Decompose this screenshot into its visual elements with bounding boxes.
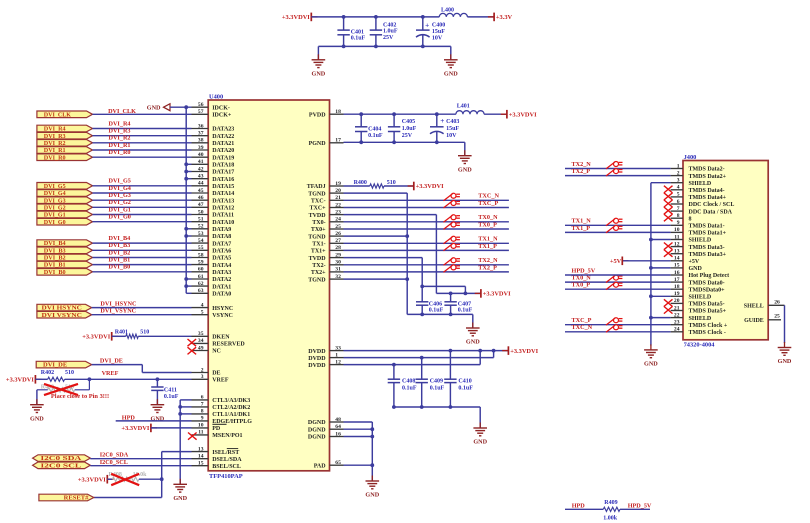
svg-text:10V: 10V (446, 133, 457, 139)
svg-text:TMDS Data1-: TMDS Data1- (689, 224, 725, 230)
svg-text:19: 19 (335, 181, 341, 187)
svg-text:DKEN: DKEN (212, 335, 230, 341)
svg-text:TXC_P: TXC_P (572, 317, 592, 324)
svg-text:DVI_G1: DVI_G1 (109, 206, 131, 213)
svg-text:DGND: DGND (308, 435, 326, 441)
svg-text:TX2_P: TX2_P (478, 264, 497, 271)
svg-text:12: 12 (674, 241, 680, 247)
svg-text:DATA22: DATA22 (212, 134, 234, 140)
svg-text:GND: GND (312, 70, 326, 77)
svg-text:MSEN/PO1: MSEN/PO1 (212, 433, 242, 439)
svg-text:23: 23 (335, 209, 341, 215)
svg-text:DVI_CLK: DVI_CLK (108, 108, 136, 115)
svg-text:DATA17: DATA17 (212, 170, 234, 176)
svg-text:DVI_HSYNC: DVI_HSYNC (100, 300, 136, 307)
svg-text:+3.3VDVI: +3.3VDVI (82, 334, 110, 341)
svg-text:25V: 25V (402, 133, 413, 139)
svg-text:41: 41 (198, 159, 204, 165)
svg-text:14: 14 (198, 454, 204, 460)
svg-text:DATA10: DATA10 (212, 220, 234, 226)
svg-text:C408: C408 (402, 379, 415, 385)
svg-text:HPD_5V: HPD_5V (628, 502, 652, 509)
svg-text:25V: 25V (383, 35, 394, 41)
svg-text:DVI VSYNC: DVI VSYNC (42, 313, 82, 319)
svg-text:28: 28 (335, 245, 341, 251)
svg-text:CTL2/A2/DK2: CTL2/A2/DK2 (212, 405, 250, 411)
svg-text:TGND: TGND (308, 191, 326, 197)
svg-text:26: 26 (335, 231, 341, 237)
svg-text:DATA4: DATA4 (212, 263, 231, 269)
svg-text:DVI_G2: DVI_G2 (109, 199, 131, 206)
svg-text:18: 18 (335, 109, 341, 115)
svg-text:1.00k: 1.00k (603, 516, 618, 522)
svg-text:DVI_R0: DVI_R0 (44, 155, 66, 161)
svg-text:+5V: +5V (610, 258, 622, 265)
svg-text:DATA12: DATA12 (212, 206, 234, 212)
svg-text:+3.3VDVI: +3.3VDVI (282, 14, 310, 21)
svg-text:7: 7 (677, 206, 680, 212)
svg-text:25: 25 (335, 224, 341, 230)
svg-text:42: 42 (198, 166, 204, 172)
svg-text:55: 55 (198, 245, 204, 251)
svg-text:DVI_R4: DVI_R4 (109, 120, 131, 127)
svg-text:1: 1 (677, 163, 680, 169)
svg-text:SHIELD: SHIELD (689, 181, 712, 187)
svg-text:TX1_P: TX1_P (572, 225, 591, 232)
svg-text:I2C0 SDA: I2C0 SDA (41, 456, 83, 462)
svg-text:36: 36 (198, 123, 204, 129)
svg-text:+3.3VDVI: +3.3VDVI (6, 377, 34, 384)
svg-text:TFADJ: TFADJ (307, 184, 326, 190)
svg-text:DVI_G0: DVI_G0 (109, 214, 131, 221)
svg-text:DATA7: DATA7 (212, 241, 231, 247)
svg-text:TX0_N: TX0_N (478, 214, 498, 221)
svg-text:PVDD: PVDD (309, 112, 326, 118)
svg-text:GND: GND (147, 105, 161, 112)
svg-text:57: 57 (198, 109, 204, 115)
svg-text:DVI_G2: DVI_G2 (44, 205, 66, 211)
svg-text:VREF: VREF (212, 378, 229, 384)
svg-text:5: 5 (677, 192, 680, 198)
svg-text:+3.3VDVI: +3.3VDVI (78, 476, 106, 483)
svg-text:TX1_N: TX1_N (572, 218, 592, 225)
svg-text:TMDS Clock -: TMDS Clock - (689, 330, 726, 336)
svg-text:RESERVED: RESERVED (212, 342, 245, 348)
svg-text:GND: GND (473, 439, 487, 446)
svg-text:DATA6: DATA6 (212, 249, 231, 255)
svg-text:4: 4 (677, 185, 680, 191)
svg-text:TMDS Clock +: TMDS Clock + (689, 323, 728, 329)
svg-text:48: 48 (335, 417, 341, 423)
svg-text:7: 7 (201, 402, 204, 408)
svg-text:DVI_G5: DVI_G5 (44, 184, 66, 190)
svg-text:CTL3/A3/DK3: CTL3/A3/DK3 (212, 398, 250, 404)
svg-text:C411: C411 (164, 387, 177, 393)
svg-text:2: 2 (677, 170, 680, 176)
svg-text:DDC Clock / SCL: DDC Clock / SCL (689, 202, 735, 208)
svg-text:17: 17 (335, 138, 341, 144)
svg-text:DVI_G4: DVI_G4 (44, 191, 66, 197)
svg-text:58: 58 (198, 252, 204, 258)
svg-text:+: + (440, 117, 444, 125)
svg-text:R402: R402 (41, 370, 54, 376)
svg-text:25: 25 (774, 314, 780, 320)
svg-text:I2C0_SCL: I2C0_SCL (100, 459, 128, 466)
svg-text:R409: R409 (604, 500, 617, 506)
svg-text:37: 37 (198, 131, 204, 137)
svg-text:DATA13: DATA13 (212, 198, 234, 204)
svg-text:TFP410PAP: TFP410PAP (209, 473, 243, 480)
svg-text:56: 56 (198, 102, 204, 108)
svg-text:DVI_B1: DVI_B1 (44, 263, 66, 269)
svg-text:DVI_B2: DVI_B2 (109, 249, 131, 256)
svg-text:16: 16 (674, 270, 680, 276)
svg-text:PD: PD (212, 426, 221, 432)
svg-text:DDC Data / SDA: DDC Data / SDA (689, 209, 733, 215)
svg-text:49: 49 (198, 345, 204, 351)
svg-text:DVI_G4: DVI_G4 (109, 185, 131, 192)
svg-text:SHELL: SHELL (744, 304, 764, 310)
svg-text:TXC_N: TXC_N (478, 193, 499, 200)
svg-text:HPD_5V: HPD_5V (572, 267, 596, 274)
svg-text:TMDS Data3-: TMDS Data3- (689, 245, 725, 251)
svg-text:TGND: TGND (308, 277, 326, 283)
svg-text:63: 63 (198, 288, 204, 294)
svg-text:+3.3VDVI: +3.3VDVI (483, 291, 511, 298)
svg-text:TX0_P: TX0_P (572, 282, 591, 289)
svg-text:34: 34 (198, 338, 204, 344)
svg-text:DE: DE (212, 371, 220, 377)
svg-text:510: 510 (387, 180, 396, 186)
svg-text:TXC_P: TXC_P (478, 200, 498, 207)
svg-text:31: 31 (335, 267, 341, 273)
svg-text:DVI_G0: DVI_G0 (44, 220, 66, 226)
svg-text:26: 26 (774, 299, 780, 305)
svg-text:GUIDE: GUIDE (744, 318, 764, 324)
svg-text:ISEL/RST: ISEL/RST (212, 450, 239, 456)
svg-text:DVI_G3: DVI_G3 (109, 192, 131, 199)
svg-text:R401: R401 (115, 329, 128, 335)
svg-text:DVI_B0: DVI_B0 (44, 270, 66, 276)
svg-text:0.1uF: 0.1uF (430, 386, 445, 392)
svg-text:TGND: TGND (308, 234, 326, 240)
svg-text:0.1uF: 0.1uF (164, 394, 179, 400)
svg-text:DATA20: DATA20 (212, 148, 234, 154)
svg-text:SHIELD: SHIELD (689, 295, 712, 301)
svg-text:23: 23 (674, 320, 680, 326)
svg-text:TXC_N: TXC_N (572, 324, 593, 331)
svg-text:TMDS Data5-: TMDS Data5- (689, 302, 725, 308)
svg-text:+5V: +5V (689, 259, 700, 265)
svg-text:60: 60 (198, 267, 204, 273)
svg-text:TX1_N: TX1_N (478, 236, 498, 243)
svg-text:44: 44 (198, 181, 204, 187)
svg-text:DATA9: DATA9 (212, 227, 231, 233)
svg-text:TX0+: TX0+ (311, 227, 326, 233)
svg-text:TX1_P: TX1_P (478, 243, 497, 250)
svg-text:DVI_R4: DVI_R4 (44, 127, 66, 133)
svg-text:18: 18 (674, 284, 680, 290)
svg-text:DATA2: DATA2 (212, 277, 231, 283)
svg-text:TMDS Data0-: TMDS Data0- (689, 280, 725, 286)
svg-text:TXC-: TXC- (311, 199, 326, 205)
svg-text:17: 17 (674, 277, 680, 283)
svg-text:DVI_G1: DVI_G1 (44, 213, 66, 219)
svg-text:GND: GND (458, 166, 472, 173)
svg-text:GND: GND (365, 492, 379, 499)
svg-text:L400: L400 (441, 8, 454, 14)
svg-text:DATA11: DATA11 (212, 213, 234, 219)
svg-text:3: 3 (677, 178, 680, 184)
svg-text:I2C0_SDA: I2C0_SDA (100, 451, 129, 458)
svg-text:24: 24 (335, 217, 341, 223)
svg-text:22: 22 (335, 202, 341, 208)
svg-text:15uF: 15uF (432, 29, 445, 35)
svg-text:1.0uF: 1.0uF (402, 126, 417, 132)
svg-text:45: 45 (198, 188, 204, 194)
svg-text:DATA16: DATA16 (212, 177, 234, 183)
svg-text:510: 510 (65, 370, 74, 376)
svg-text:46: 46 (198, 195, 204, 201)
svg-text:TX0_P: TX0_P (478, 221, 497, 228)
svg-text:TX2_N: TX2_N (572, 161, 592, 168)
svg-text:DGND: DGND (308, 427, 326, 433)
svg-text:DATA1: DATA1 (212, 284, 231, 290)
svg-text:+3.3VDVI: +3.3VDVI (416, 183, 444, 190)
svg-text:DATA14: DATA14 (212, 191, 234, 197)
svg-text:DVI_DE: DVI_DE (43, 363, 67, 369)
svg-text:22: 22 (674, 312, 680, 318)
svg-text:DVI_R2: DVI_R2 (109, 135, 131, 142)
svg-text:SHIELD: SHIELD (689, 238, 712, 244)
svg-text:C410: C410 (458, 379, 471, 385)
svg-text:54: 54 (198, 238, 204, 244)
svg-text:SHIELD: SHIELD (689, 316, 712, 322)
svg-text:IDCK-: IDCK- (212, 105, 230, 111)
svg-text:C404: C404 (368, 127, 381, 133)
svg-text:14: 14 (674, 256, 680, 262)
svg-text:GND: GND (689, 266, 703, 272)
svg-text:DATA0: DATA0 (212, 292, 231, 298)
svg-text:DVI_B3: DVI_B3 (44, 248, 66, 254)
svg-text:TMDS Data4+: TMDS Data4+ (689, 195, 727, 201)
svg-text:TX1-: TX1- (312, 242, 325, 248)
svg-text:21: 21 (674, 305, 680, 311)
svg-text:0.1uF: 0.1uF (458, 386, 473, 392)
svg-text:+: + (425, 22, 429, 30)
svg-text:40: 40 (198, 152, 204, 158)
svg-text:59: 59 (198, 259, 204, 265)
svg-text:I2C0 SCL: I2C0 SCL (41, 463, 82, 469)
svg-text:+3.3V: +3.3V (496, 14, 513, 21)
svg-text:4: 4 (201, 302, 204, 308)
svg-text:DATA23: DATA23 (212, 127, 234, 133)
svg-text:HSYNC: HSYNC (212, 306, 233, 312)
svg-text:TMDS Data1+: TMDS Data1+ (689, 231, 727, 237)
svg-text:510: 510 (140, 329, 149, 335)
svg-text:DATA15: DATA15 (212, 184, 234, 190)
svg-text:DVI_B4: DVI_B4 (109, 235, 131, 242)
svg-text:0.1uF: 0.1uF (458, 308, 473, 314)
svg-text:3: 3 (201, 374, 204, 380)
svg-text:DVI_CLK: DVI_CLK (44, 112, 72, 118)
svg-text:TMDS Data2-: TMDS Data2- (689, 167, 725, 173)
svg-text:TX1+: TX1+ (311, 249, 326, 255)
svg-text:DVI_DE: DVI_DE (100, 357, 123, 364)
svg-text:J400: J400 (684, 154, 697, 161)
svg-text:2: 2 (201, 367, 204, 373)
svg-text:NC: NC (212, 349, 221, 355)
svg-text:DATA18: DATA18 (212, 163, 234, 169)
svg-text:TMDSData0+: TMDSData0+ (689, 287, 726, 293)
svg-text:30: 30 (335, 260, 341, 266)
svg-text:20: 20 (674, 298, 680, 304)
svg-text:CTL1/A1/DK1: CTL1/A1/DK1 (212, 412, 250, 418)
svg-text:5: 5 (201, 310, 204, 316)
svg-text:DATA5: DATA5 (212, 256, 231, 262)
svg-text:0.1uF: 0.1uF (402, 386, 417, 392)
svg-text:TMDS Data3+: TMDS Data3+ (689, 252, 727, 258)
svg-text:L401: L401 (457, 104, 470, 110)
svg-text:DVI_B0: DVI_B0 (109, 264, 131, 271)
svg-text:10V: 10V (432, 36, 443, 42)
svg-text:64: 64 (335, 424, 341, 430)
svg-text:8: 8 (677, 213, 680, 219)
svg-text:39: 39 (198, 145, 204, 151)
svg-text:43: 43 (198, 174, 204, 180)
svg-text:6: 6 (201, 395, 204, 401)
svg-text:U400: U400 (209, 93, 223, 100)
svg-text:C405: C405 (402, 119, 415, 125)
svg-text:C401: C401 (351, 30, 364, 36)
svg-text:51: 51 (198, 217, 204, 223)
svg-text:DVI_G5: DVI_G5 (109, 178, 131, 185)
svg-text:TX0-: TX0- (312, 220, 325, 226)
svg-text:DGND: DGND (308, 420, 326, 426)
svg-text:VREF: VREF (102, 370, 119, 377)
svg-text:DVI_R0: DVI_R0 (109, 149, 131, 156)
svg-text:DVI_B1: DVI_B1 (109, 257, 131, 264)
svg-text:9: 9 (201, 416, 204, 422)
svg-text:GND: GND (778, 358, 792, 365)
svg-text:IDCK+: IDCK+ (212, 113, 232, 119)
svg-text:1.0uF: 1.0uF (383, 29, 398, 35)
svg-text:DATA3: DATA3 (212, 270, 231, 276)
svg-text:8: 8 (689, 216, 692, 222)
svg-text:+3.3VDVI: +3.3VDVI (509, 111, 537, 118)
svg-text:15uF: 15uF (446, 126, 459, 132)
svg-text:PAD: PAD (314, 463, 327, 469)
svg-text:DVI_VSYNC: DVI_VSYNC (100, 308, 136, 315)
svg-text:0.1uF: 0.1uF (351, 36, 366, 42)
svg-text:47: 47 (198, 202, 204, 208)
svg-text:DVI_R3: DVI_R3 (109, 128, 131, 135)
svg-text:BSEL/SCL: BSEL/SCL (212, 464, 241, 470)
svg-text:DVDD: DVDD (308, 349, 326, 355)
svg-text:DSEL/SDA: DSEL/SDA (212, 457, 242, 463)
svg-text:27: 27 (335, 238, 341, 244)
svg-text:35: 35 (198, 331, 204, 337)
svg-text:DVI_R2: DVI_R2 (44, 141, 66, 147)
svg-text:GND: GND (644, 361, 658, 368)
svg-text:C400: C400 (432, 22, 445, 28)
svg-text:C403: C403 (446, 119, 459, 125)
svg-text:TMDS Data5+: TMDS Data5+ (689, 309, 727, 315)
svg-text:GND: GND (466, 339, 480, 346)
svg-text:74320-4004: 74320-4004 (684, 342, 716, 349)
svg-text:6: 6 (677, 199, 680, 205)
svg-text:0.1uF: 0.1uF (429, 308, 444, 314)
svg-text:TMDS Data4-: TMDS Data4- (689, 188, 725, 194)
svg-text:38: 38 (198, 138, 204, 144)
svg-text:TX2+: TX2+ (311, 270, 326, 276)
svg-text:50: 50 (198, 209, 204, 215)
svg-text:Place close to Pin 3!!!: Place close to Pin 3!!! (51, 394, 109, 400)
svg-text:DVI_B3: DVI_B3 (109, 242, 131, 249)
svg-text:+3.3VDVI: +3.3VDVI (121, 425, 149, 432)
svg-text:Hot Plug Detect: Hot Plug Detect (689, 273, 730, 279)
svg-text:TVDD: TVDD (309, 213, 327, 219)
svg-text:13: 13 (198, 446, 204, 452)
svg-text:9: 9 (677, 220, 680, 226)
svg-text:TXC+: TXC+ (310, 206, 327, 212)
svg-text:11: 11 (674, 234, 679, 240)
svg-text:GND: GND (30, 415, 44, 422)
svg-text:VSYNC: VSYNC (212, 313, 233, 319)
svg-text:32: 32 (335, 274, 341, 280)
svg-text:15: 15 (198, 461, 204, 467)
svg-text:R400: R400 (354, 180, 367, 186)
svg-text:TX2_P: TX2_P (572, 168, 591, 175)
svg-text:DATA21: DATA21 (212, 141, 234, 147)
svg-text:15: 15 (674, 263, 680, 269)
svg-text:TVDD: TVDD (309, 256, 327, 262)
svg-text:61: 61 (198, 274, 204, 280)
svg-text:12: 12 (335, 359, 341, 365)
svg-text:DATA19: DATA19 (212, 155, 234, 161)
svg-text:DVDD: DVDD (308, 363, 326, 369)
svg-text:GND: GND (444, 70, 458, 77)
svg-text:10: 10 (674, 227, 680, 233)
svg-text:19: 19 (674, 291, 680, 297)
svg-text:52: 52 (198, 224, 204, 230)
svg-text:0.1uF: 0.1uF (368, 133, 383, 139)
svg-text:C402: C402 (383, 22, 396, 28)
svg-text:16: 16 (335, 431, 341, 437)
svg-text:24: 24 (674, 327, 680, 333)
svg-text:53: 53 (198, 231, 204, 237)
svg-text:GND: GND (173, 495, 187, 502)
svg-text:HPD: HPD (572, 502, 586, 509)
svg-text:1: 1 (335, 352, 338, 358)
svg-text:65: 65 (335, 460, 341, 466)
svg-text:DVI_R1: DVI_R1 (44, 148, 66, 154)
svg-text:10: 10 (198, 423, 204, 429)
svg-text:13: 13 (674, 249, 680, 255)
svg-text:21: 21 (335, 195, 341, 201)
svg-text:62: 62 (198, 281, 204, 287)
svg-text:DATA8: DATA8 (212, 234, 231, 240)
svg-text:DVDD: DVDD (308, 356, 326, 362)
svg-text:20: 20 (335, 188, 341, 194)
svg-text:33: 33 (335, 345, 341, 351)
svg-text:C409: C409 (430, 379, 443, 385)
svg-text:8: 8 (201, 409, 204, 415)
svg-text:11: 11 (198, 430, 203, 436)
svg-text:29: 29 (335, 252, 341, 258)
svg-text:TX2_N: TX2_N (478, 257, 498, 264)
svg-text:+3.3VDVI: +3.3VDVI (510, 348, 538, 355)
